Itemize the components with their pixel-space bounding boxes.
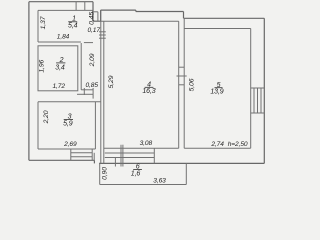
svg-text:3,4: 3,4	[55, 65, 65, 72]
svg-text:0,90: 0,90	[102, 167, 109, 180]
svg-text:2,69: 2,69	[63, 141, 77, 148]
svg-text:3,08: 3,08	[140, 140, 153, 147]
svg-text:1,37: 1,37	[40, 16, 47, 29]
svg-text:0,85: 0,85	[85, 82, 98, 89]
svg-text:16,3: 16,3	[142, 88, 155, 95]
svg-text:5,06: 5,06	[189, 78, 196, 91]
svg-text:1,84: 1,84	[57, 34, 70, 41]
svg-text:h=2,50: h=2,50	[228, 141, 248, 148]
svg-text:2,20: 2,20	[43, 110, 50, 124]
svg-text:0,45: 0,45	[89, 12, 96, 25]
svg-text:1,96: 1,96	[39, 59, 46, 72]
svg-text:2,09: 2,09	[89, 53, 96, 67]
svg-text:1,72: 1,72	[52, 83, 65, 90]
svg-text:5,4: 5,4	[68, 23, 78, 30]
svg-text:3,63: 3,63	[153, 178, 166, 185]
svg-text:5,29: 5,29	[108, 75, 115, 88]
svg-text:13,9: 13,9	[210, 89, 223, 96]
svg-text:0,17: 0,17	[87, 27, 100, 34]
svg-text:1,6: 1,6	[131, 170, 141, 177]
svg-text:5,9: 5,9	[63, 121, 73, 128]
svg-text:2,74: 2,74	[210, 141, 224, 148]
